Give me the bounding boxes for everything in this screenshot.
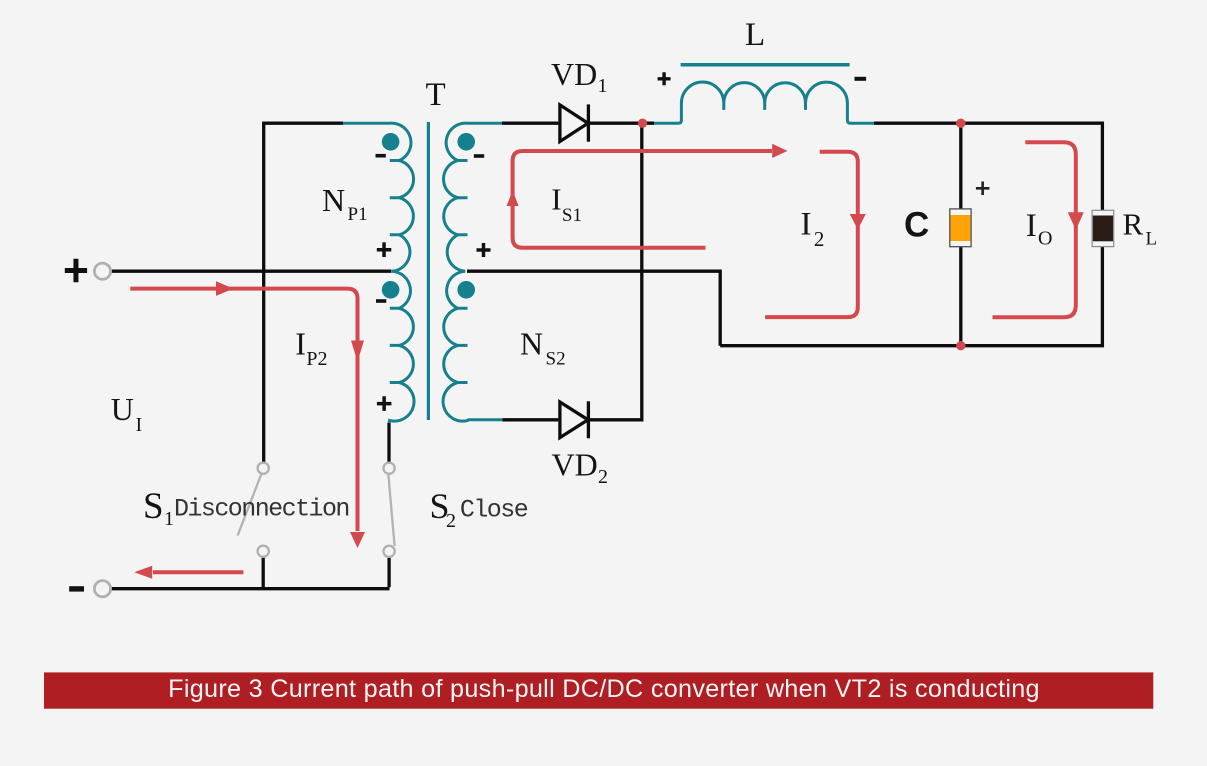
svg-text:VD: VD [551,56,597,92]
svg-text:2: 2 [814,227,825,251]
svg-text:P1: P1 [348,204,368,225]
svg-text:S: S [143,486,164,527]
svg-text:VD: VD [552,447,598,483]
svg-text:C: C [904,206,929,245]
svg-text:L: L [1146,229,1158,250]
svg-text:N: N [322,182,345,218]
svg-text:I: I [1026,208,1037,244]
svg-text:R: R [1123,207,1144,242]
svg-text:S1: S1 [562,205,582,226]
svg-text:U: U [111,391,134,427]
svg-text:I: I [551,182,561,217]
svg-text:O: O [1038,227,1052,249]
svg-text:1: 1 [598,75,608,97]
svg-text:P2: P2 [306,348,327,370]
svg-text:T: T [426,77,446,113]
svg-text:I: I [801,207,812,243]
svg-text:Disconnection: Disconnection [174,494,349,523]
svg-text:2: 2 [446,510,456,532]
svg-text:I: I [295,325,306,361]
svg-text:Figure 3 Current path of push-: Figure 3 Current path of push-pull DC/DC… [168,675,1040,703]
svg-text:S2: S2 [546,349,566,370]
svg-text:1: 1 [164,508,174,530]
svg-text:Close: Close [460,495,528,524]
svg-text:L: L [745,17,765,53]
svg-text:N: N [520,326,543,362]
svg-text:I: I [136,415,143,436]
svg-text:2: 2 [598,466,608,488]
